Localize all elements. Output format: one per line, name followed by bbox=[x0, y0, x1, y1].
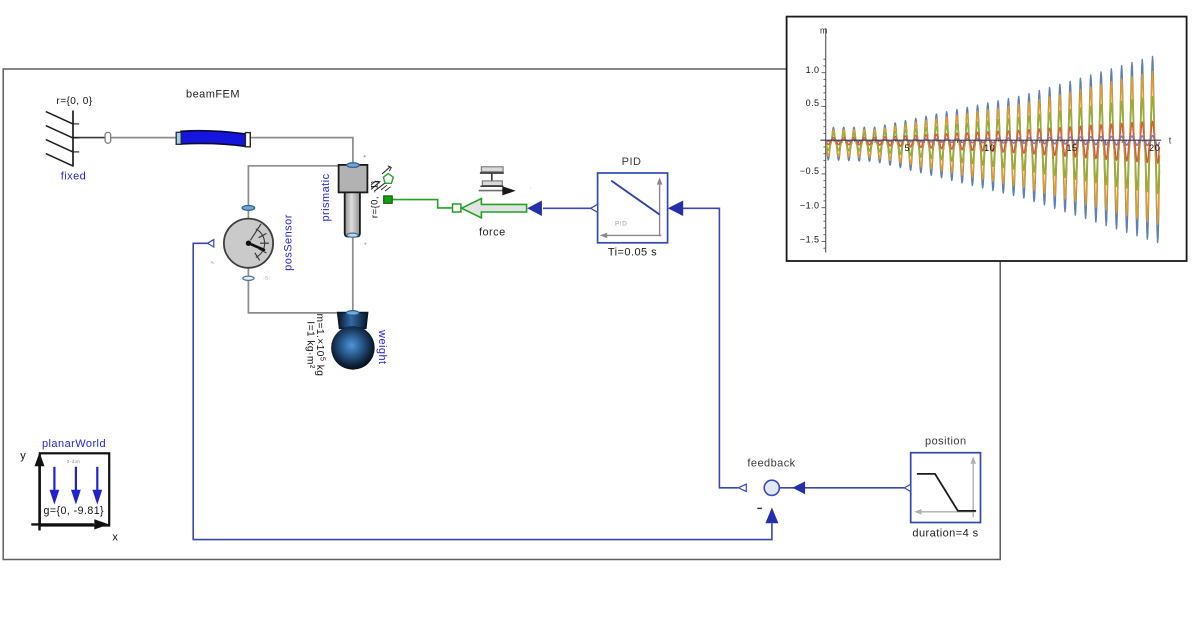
svg-text:y: y bbox=[20, 450, 26, 462]
svg-text:I=1 kg·m²: I=1 kg·m² bbox=[304, 321, 315, 369]
prismatic joint "prismatic" bbox=[339, 163, 368, 237]
svg-text:t: t bbox=[1169, 136, 1172, 146]
wire force.flange to prismatic.axis (green) bbox=[392, 200, 453, 208]
svg-text:feedback: feedback bbox=[747, 458, 795, 470]
svg-text:−1.0: −1.0 bbox=[800, 200, 820, 210]
svg-text:0.5: 0.5 bbox=[806, 98, 820, 108]
svg-text:beamFEM: beamFEM bbox=[186, 88, 240, 100]
svg-text:15: 15 bbox=[1067, 143, 1078, 153]
force arrow body bbox=[462, 199, 527, 218]
tiny artifact dots near prismatic connectors bbox=[364, 155, 366, 157]
force actuator "force" bbox=[479, 167, 516, 196]
feedback block "feedback" bbox=[764, 480, 779, 495]
sensor posSensor bbox=[224, 206, 273, 281]
plot x-axis (over curves) bbox=[820, 139, 1161, 141]
svg-text:20: 20 bbox=[1149, 143, 1160, 153]
plot y-axis bbox=[825, 28, 827, 252]
svg-text:force: force bbox=[479, 227, 506, 239]
svg-text:prismatic: prismatic bbox=[320, 173, 332, 221]
wire position.y to feedback.u1 bbox=[780, 487, 905, 489]
svg-text:PID: PID bbox=[622, 156, 642, 168]
waveforms bbox=[826, 56, 1159, 242]
svg-text:duration=4 s: duration=4 s bbox=[912, 527, 978, 539]
svg-text:3-dim: 3-dim bbox=[67, 459, 81, 464]
svg-text:g={0, -9.81}: g={0, -9.81} bbox=[44, 505, 104, 517]
svg-text:−0.5: −0.5 bbox=[800, 166, 820, 176]
beam beamFEM bbox=[176, 131, 250, 147]
svg-text:PID: PID bbox=[615, 221, 627, 228]
connector PID.u (input) bbox=[668, 201, 683, 217]
svg-text:m: m bbox=[820, 26, 828, 36]
connector force.f (input triangle) bbox=[527, 200, 542, 216]
connector feedback.y (output) bbox=[738, 484, 746, 491]
svg-text:posSensor: posSensor bbox=[283, 214, 295, 271]
wire posSensor.frame_a to prismatic.frame_a bbox=[248, 166, 338, 220]
svg-text:position: position bbox=[925, 436, 967, 448]
connector feedback.u2 (input, bottom) bbox=[765, 507, 778, 523]
svg-text:x: x bbox=[112, 532, 118, 544]
connector posSensor.y (output triangle) bbox=[207, 240, 213, 247]
mass weight bbox=[331, 311, 375, 370]
wire prismatic.frame_b to weight.frame_a bbox=[352, 236, 354, 311]
wire fixed.frame to beamFEM.frame_a bbox=[73, 137, 105, 139]
svg-text:’: ’ bbox=[530, 187, 532, 193]
prismatic support flange icon bbox=[371, 166, 393, 191]
label m=1.x10^5 kg / I=1 kg m^2 bbox=[304, 314, 327, 377]
connector prismatic.axis (green square) bbox=[384, 196, 393, 203]
svg-text:Ti=0.05 s: Ti=0.05 s bbox=[608, 246, 657, 258]
wire posSensor.y to feedback.u2 bbox=[193, 243, 772, 539]
wire feedback.y to PID.u bbox=[683, 208, 738, 488]
svg-text:planarWorld: planarWorld bbox=[42, 438, 106, 450]
feedback minus sign bbox=[757, 507, 762, 509]
wire beamFEM.frame_b to prismatic.frame_a bbox=[250, 138, 353, 164]
svg-text:r={0, 0}: r={0, 0} bbox=[56, 96, 92, 107]
fixed support "fixed" bbox=[46, 111, 79, 167]
svg-text:1.0: 1.0 bbox=[806, 65, 820, 75]
svg-text:10: 10 bbox=[984, 143, 995, 153]
planarWorld block bbox=[31, 452, 109, 530]
connector PID.y (output) bbox=[591, 204, 598, 212]
connector force.flange (white square) bbox=[453, 204, 461, 212]
wire posSensor.frame_b to weight.frame_a bbox=[248, 268, 346, 313]
source block "position" bbox=[911, 453, 981, 523]
connector fixed.frame (rounded rect) bbox=[105, 132, 111, 143]
svg-text:-5:: -5: bbox=[263, 276, 271, 282]
svg-text:weight: weight bbox=[376, 329, 388, 365]
plot window bbox=[787, 17, 1187, 261]
connector feedback.u1 (input) bbox=[792, 481, 805, 494]
PID controller "PID" bbox=[598, 173, 668, 243]
svg-text:fixed: fixed bbox=[61, 170, 87, 182]
svg-text:−1.5: −1.5 bbox=[800, 235, 820, 245]
svg-text:.··: .·· bbox=[264, 269, 270, 274]
svg-text:5: 5 bbox=[904, 143, 909, 153]
svg-text:r={0, -1}: r={0, -1} bbox=[369, 180, 380, 218]
connector position.y (output) bbox=[904, 484, 910, 491]
wire PID.y to force.f bbox=[543, 207, 590, 209]
diagram frame bbox=[3, 69, 1000, 560]
